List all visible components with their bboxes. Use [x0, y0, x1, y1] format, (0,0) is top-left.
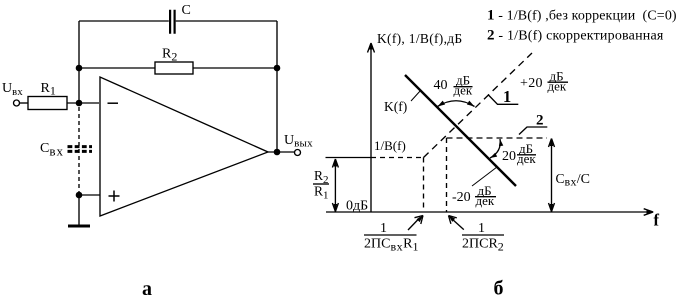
resistor R1	[28, 97, 67, 110]
svg-text:+20: +20	[520, 76, 543, 91]
construction dashed vertical at f1	[423, 158, 425, 213]
svg-text:0дБ: 0дБ	[346, 199, 368, 214]
svg-text:1: 1	[503, 87, 511, 106]
svg-text:K(f): K(f)	[384, 99, 407, 114]
label -20 дБ/дек	[452, 183, 496, 208]
svg-text:K(f), 1/B(f),дБ: K(f), 1/B(f),дБ	[377, 31, 462, 46]
label +20 дБ/дек	[520, 69, 568, 94]
resistor R2	[155, 62, 193, 74]
label R2	[162, 47, 177, 64]
svg-text:Uвых: Uвых	[284, 133, 313, 150]
svg-text:1: 1	[478, 221, 485, 236]
svg-text:R1: R1	[314, 184, 329, 202]
arrow to f1 on axis	[408, 216, 423, 231]
svg-text:R1: R1	[41, 81, 56, 98]
node inverting input	[76, 100, 83, 107]
measure arrow Cвх/C	[549, 139, 555, 212]
node feedback right	[274, 65, 281, 72]
svg-text:б: б	[494, 278, 504, 298]
construction dashed vertical at f2	[446, 138, 448, 212]
svg-text:20: 20	[502, 149, 516, 164]
leader -20 to K(f) line	[472, 167, 497, 186]
svg-text:Uвх: Uвх	[2, 81, 23, 98]
op-amp plus sign	[109, 191, 120, 202]
op-amp minus sign	[108, 102, 119, 104]
label 2 with leader	[519, 113, 547, 135]
arrow to f2 on axis	[449, 216, 464, 230]
gain line K(f)	[405, 75, 516, 186]
svg-text:f: f	[654, 211, 660, 230]
capacitor Cвх (dashed input capacitance)	[68, 147, 93, 152]
svg-text:2 - 1/B(f) скорректированная: 2 - 1/B(f) скорректированная	[487, 28, 664, 44]
wire input to R1	[20, 102, 28, 104]
line 2 plateau (corrected, dashed horizontal)	[447, 137, 548, 139]
arc 20 dB/dec closure (corrected)	[490, 139, 503, 158]
wire R2 branch	[79, 67, 277, 69]
wire op-amp output	[268, 151, 294, 153]
output terminal	[295, 150, 301, 156]
arc 40 dB/dec rate of closure	[438, 101, 475, 107]
svg-text:2: 2	[536, 113, 544, 129]
wire R1 to inverting input	[67, 102, 99, 104]
fraction R2/R1	[313, 168, 329, 202]
wire dashed input node to ground node	[78, 107, 80, 193]
ground	[68, 225, 90, 228]
svg-text:дек: дек	[476, 193, 495, 208]
label Cвх	[40, 141, 64, 159]
label Uвх	[2, 81, 23, 98]
node feedback left	[76, 65, 83, 72]
fraction 1/(2ПСR2)	[462, 221, 504, 254]
axis horizontal f	[326, 209, 653, 216]
wire right vertical (output node to top)	[276, 21, 278, 152]
capacitor C	[170, 10, 175, 34]
svg-text:дек: дек	[548, 79, 567, 94]
line 1 (1/B(f) without correction, +20dB/dec, dashed)	[424, 53, 533, 158]
svg-text:1/B(f): 1/B(f)	[374, 138, 406, 153]
label R1	[41, 81, 56, 98]
label Uвых	[284, 133, 313, 150]
wire to ground	[78, 195, 80, 225]
label 1 with leader	[488, 87, 518, 106]
svg-text:а: а	[142, 278, 152, 297]
measure arrow R2/R1 height	[332, 159, 338, 212]
level line 1/B(f) low freq	[326, 157, 424, 159]
svg-text:Свх/С: Свх/С	[556, 171, 591, 189]
svg-text:40: 40	[434, 78, 448, 93]
svg-text:Свх: Свх	[40, 141, 64, 159]
leader K(f)	[411, 90, 421, 101]
svg-text:дек: дек	[517, 151, 536, 166]
op-amp U1	[100, 77, 268, 216]
label 40 дБ/дек	[434, 73, 473, 98]
svg-text:2ПСR2: 2ПСR2	[462, 237, 504, 254]
svg-text:дек: дек	[454, 83, 473, 98]
axis vertical K(f),1/B(f),дБ	[368, 43, 375, 212]
node output	[274, 149, 281, 156]
node ground junction	[76, 192, 83, 199]
legend line 1	[487, 8, 677, 24]
wire left vertical (input node to top)	[78, 21, 80, 103]
svg-text:2ПСвхR1: 2ПСвхR1	[364, 237, 418, 254]
legend line 2	[487, 28, 664, 44]
svg-text:1: 1	[380, 221, 387, 236]
fraction 1/(2ПСвхR1)	[364, 221, 418, 254]
input terminal	[14, 100, 20, 106]
wire noninverting input	[79, 194, 100, 196]
svg-text:-20: -20	[452, 190, 471, 205]
svg-text:1 - 1/B(f) ,без коррекции (C=: 1 - 1/B(f) ,без коррекции (C=0)	[487, 8, 677, 24]
label 20 дБ/дек	[502, 141, 536, 166]
wire top feedback (capacitor branch)	[79, 20, 277, 22]
svg-text:C: C	[182, 3, 191, 18]
svg-text:R2: R2	[162, 47, 177, 64]
label Свх/С	[556, 171, 591, 189]
